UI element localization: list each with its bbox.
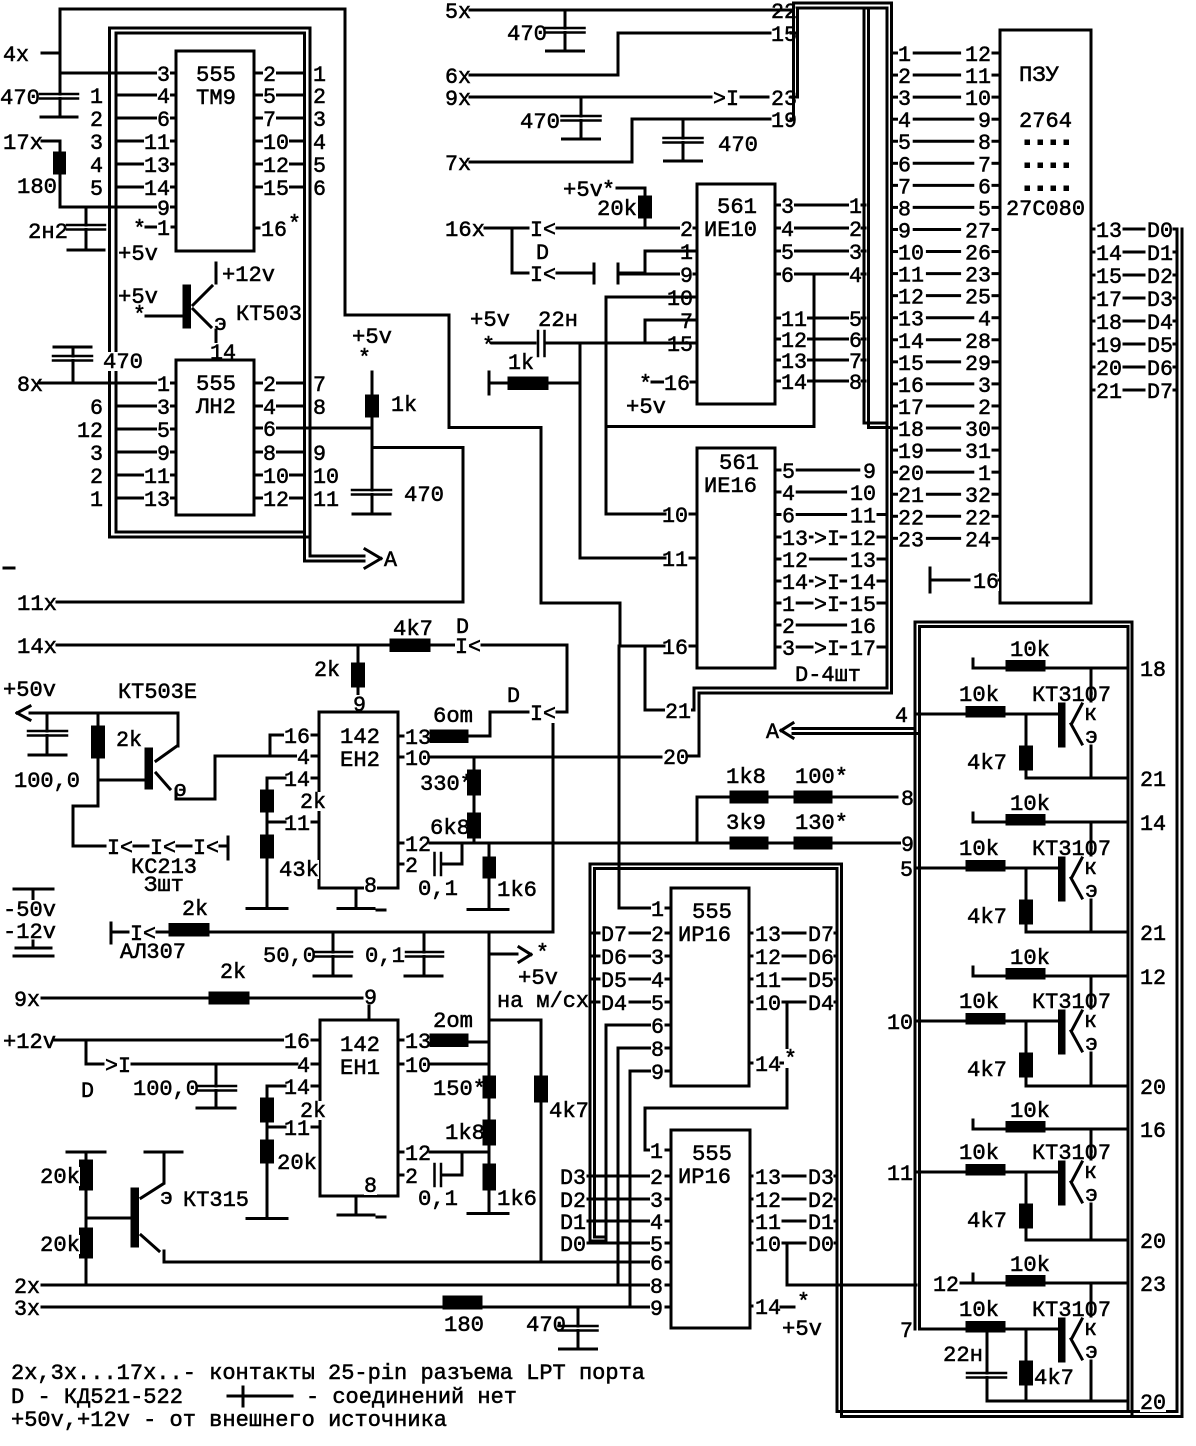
wire D diode row y712: [507, 686, 520, 705]
transistor Q4 КТ3107: [1032, 685, 1111, 704]
svg-text:I<: I<: [455, 634, 481, 660]
svg-text:20: 20: [1140, 1075, 1166, 1101]
net A return arrow double line: [766, 722, 779, 741]
capacitor 50,0: [263, 946, 316, 965]
svg-text:12: 12: [1140, 965, 1166, 991]
node 9x input: [445, 89, 471, 108]
svg-text:I<: I<: [107, 835, 133, 861]
IR16u pin 8: [618, 1047, 651, 1050]
svg-text:+5v: +5v: [782, 1316, 822, 1342]
svg-text:20k: 20k: [40, 1164, 80, 1190]
transistor Q5 КТ3107: [1032, 839, 1111, 858]
svg-text:+50v,+12v - от внешнего источн: +50v,+12v - от внешнего источника: [11, 1407, 447, 1433]
resistor 1k6 EH1: [483, 1164, 496, 1190]
EH1 pin 10 row: [398, 1063, 403, 1066]
EH1 right pin 13 with 2om: [398, 1039, 403, 1042]
svg-text:2k: 2k: [220, 959, 246, 985]
capacitor 470 at LN2 pin6: [352, 489, 391, 492]
IR16l pin 6: [164, 1261, 651, 1264]
svg-text:-12v: -12v: [3, 919, 56, 945]
EH2 left pins: [284, 727, 310, 746]
EH1 pin 9 top: [364, 988, 377, 1007]
svg-text:11: 11: [662, 547, 688, 573]
svg-text:17: 17: [850, 636, 876, 662]
resistor 6k8: [430, 818, 470, 837]
svg-text:3: 3: [782, 636, 795, 662]
EH2 pin 10 row to net 20: [398, 756, 403, 759]
LN2 pin 6 row to 1k junction: [254, 427, 372, 430]
svg-text:*: *: [358, 345, 371, 371]
svg-text:15: 15: [667, 332, 693, 358]
transistor Q4 КТ3107 cell 1 pullup 10k: [972, 659, 975, 668]
svg-text:470: 470: [103, 349, 143, 375]
svg-text:14: 14: [1140, 811, 1166, 837]
svg-text:27C080: 27C080: [1006, 196, 1085, 222]
IE10 pin16 star: [639, 374, 652, 393]
node 11x input: [17, 594, 57, 613]
svg-text:+5v: +5v: [626, 394, 666, 420]
svg-text:16: 16: [664, 371, 690, 397]
svg-text:4x: 4x: [3, 42, 29, 68]
svg-text:ПЗУ: ПЗУ: [1019, 62, 1059, 88]
wire clock right leg: [344, 9, 347, 315]
power +12v label: [215, 263, 218, 283]
no-connection symbol: [228, 1395, 292, 1398]
svg-text:5: 5: [90, 176, 103, 202]
svg-text:10k: 10k: [959, 1140, 999, 1166]
IR16u pin 6: [606, 1024, 651, 1027]
svg-text:1: 1: [90, 487, 103, 513]
resistors 3k9 and 130* row net 9: [726, 813, 766, 832]
svg-text:9: 9: [650, 1296, 663, 1322]
bus pair right main: [886, 8, 889, 688]
IR16l data out rows: [750, 1175, 752, 1178]
resistor 1k6 EH2: [488, 843, 491, 857]
svg-text:D7: D7: [1147, 379, 1173, 405]
resistor 4k7 cell 4: [1025, 1172, 1028, 1204]
svg-text:10k: 10k: [959, 989, 999, 1015]
svg-text:*: *: [133, 216, 146, 242]
transistor Q6 КТ3107: [1032, 992, 1111, 1011]
svg-text:D4: D4: [808, 991, 834, 1017]
resistor 1k8 EH1: [445, 1123, 485, 1142]
svg-text:D4: D4: [601, 991, 627, 1017]
svg-text:10: 10: [405, 746, 431, 772]
svg-text:+5v: +5v: [118, 241, 158, 267]
transistor Q7 base resistor 10k: [959, 1143, 999, 1162]
TM9 right pin rows: [254, 72, 305, 75]
svg-text:180: 180: [444, 1312, 484, 1338]
svg-text:10k: 10k: [1010, 791, 1050, 817]
svg-text:*: *: [784, 1046, 797, 1072]
svg-text:11: 11: [887, 1161, 913, 1187]
svg-text:330*: 330*: [420, 771, 473, 797]
svg-text:>I: >I: [713, 86, 739, 112]
capacitor 22н at cell 5: [943, 1345, 983, 1364]
power +5v label: [118, 244, 158, 263]
svg-text:20k: 20k: [277, 1150, 317, 1176]
IE16 pin 16 row: [662, 638, 688, 657]
wire 4x vertical trunk: [59, 9, 62, 94]
svg-text:10k: 10k: [1010, 1252, 1050, 1278]
EH1 left pins 16/4: [284, 1032, 310, 1051]
svg-text:100*: 100*: [795, 764, 848, 790]
svg-text:9x: 9x: [445, 86, 471, 112]
svg-text:10k: 10k: [1010, 637, 1050, 663]
svg-text:7x: 7x: [445, 151, 471, 177]
svg-text:4k7: 4k7: [967, 904, 1007, 930]
resistor 20k: [597, 199, 637, 218]
stray minus: [4, 567, 14, 570]
wire row 19: [632, 118, 770, 121]
svg-text:13: 13: [405, 1029, 431, 1055]
svg-text:10k: 10k: [959, 836, 999, 862]
IC U5 142 ЕН2 box: [319, 712, 398, 888]
svg-text:2k: 2k: [116, 727, 142, 753]
TM9 left pin rows: [60, 72, 176, 75]
power +5v under IE10: [626, 397, 666, 416]
emitter row cell 3: [1026, 1085, 1128, 1088]
net 21 row: [645, 709, 692, 712]
svg-text:24: 24: [965, 527, 991, 553]
svg-text:14: 14: [781, 370, 807, 396]
EH2 pin 2 with cap 0,1: [398, 863, 403, 866]
svg-text:*: *: [536, 940, 549, 966]
wire clock top run: [60, 8, 345, 11]
resistor 20k lower at KT315: [86, 1217, 131, 1220]
svg-text:12: 12: [933, 1272, 959, 1298]
IR16l pin 10 to D0 and out: [750, 1242, 752, 1245]
svg-text:10: 10: [755, 991, 781, 1017]
PZU pin 16 no-connect: [929, 568, 932, 592]
svg-text:11x: 11x: [17, 591, 57, 617]
svg-text:3x: 3x: [14, 1296, 40, 1322]
svg-text:>I: >I: [814, 592, 840, 618]
svg-text:23: 23: [898, 527, 924, 553]
svg-text:2х,3х...17х..- контакты 25-pin: 2х,3х...17х..- контакты 25-pin разъема L…: [11, 1360, 645, 1386]
resistor 330*: [420, 774, 473, 793]
svg-text:на м/сх: на м/сх: [497, 988, 589, 1014]
IR16l pin 8: [650, 1277, 663, 1296]
svg-text:АЛ307: АЛ307: [120, 939, 186, 965]
svg-text:14: 14: [755, 1052, 781, 1078]
svg-text:2н2: 2н2: [28, 219, 68, 245]
svg-text:0,1: 0,1: [418, 1186, 458, 1212]
svg-text:2764: 2764: [1019, 108, 1072, 134]
power +12v input: [3, 1032, 56, 1051]
svg-text:100,0: 100,0: [14, 768, 80, 794]
svg-text:1k: 1k: [391, 392, 417, 418]
PZU data pin rows D0-D7: [1091, 228, 1094, 231]
svg-text:6: 6: [313, 176, 326, 202]
diode D I< row to IE10 pin2: [530, 220, 556, 239]
svg-text:20: 20: [1140, 1390, 1166, 1416]
PZU address pin rows: [892, 52, 897, 55]
TM9 pin 16 *: [254, 227, 259, 230]
svg-text:10: 10: [887, 1010, 913, 1036]
svg-text:14: 14: [755, 1295, 781, 1321]
svg-text:1k: 1k: [508, 350, 534, 376]
capacitor 470 at 5x: [507, 24, 547, 43]
svg-text:ИР16: ИР16: [678, 922, 731, 948]
IC U2 555 ЛН2 box: [176, 360, 254, 515]
svg-text:4k7: 4k7: [967, 1057, 1007, 1083]
svg-text:4k7: 4k7: [1034, 1365, 1074, 1391]
svg-text:16: 16: [973, 569, 999, 595]
resistor 43k EH2 adj: [266, 812, 269, 835]
label D-4шт: [795, 665, 861, 684]
svg-text:I<: I<: [530, 701, 556, 727]
transistor Q4 base resistor 10k: [959, 685, 999, 704]
diode I< second row with gap bars: [512, 272, 528, 275]
transistor Q3 КТ315: [145, 1151, 182, 1154]
svg-text:1: 1: [651, 897, 664, 923]
svg-text:+12v: +12v: [3, 1029, 56, 1055]
svg-text:16x: 16x: [445, 217, 485, 243]
wire IE10 pin6 branch down: [813, 274, 816, 427]
svg-text:16: 16: [261, 217, 287, 243]
svg-text:150*: 150*: [433, 1076, 486, 1102]
capacitor 470 at 3x: [526, 1315, 566, 1334]
IC U7 561 ИЕ16 box: [697, 448, 775, 668]
wire EH2 pins16/4 tie: [215, 755, 298, 758]
svg-text:I<: I<: [530, 262, 556, 288]
svg-text:23: 23: [1140, 1272, 1166, 1298]
transistor Q6 КТ3107 cell 3 pullup 10k: [972, 967, 975, 976]
svg-text:100,0: 100,0: [133, 1076, 199, 1102]
IE16 right pin rows: [775, 469, 780, 472]
capacitor 100,0 at +50v: [46, 713, 49, 731]
svg-text:6: 6: [781, 263, 794, 289]
svg-text:9: 9: [353, 692, 366, 718]
svg-text:16: 16: [662, 635, 688, 661]
svg-text:КТ3107: КТ3107: [1032, 1140, 1111, 1166]
svg-text:2k: 2k: [300, 789, 326, 815]
node 16x input: [445, 220, 485, 239]
bus pair data right side: [1176, 229, 1179, 1412]
emitter row cell 2: [1026, 931, 1128, 934]
svg-text:4: 4: [849, 263, 862, 289]
resistor 4k7 cell 1: [1025, 714, 1028, 746]
svg-text:1: 1: [157, 216, 170, 242]
svg-text:22н: 22н: [538, 307, 578, 333]
emitter row cell 4: [1026, 1239, 1128, 1242]
IE16 pin 10: [662, 506, 688, 525]
svg-text:8: 8: [364, 1173, 377, 1199]
resistor 4k7 cell 5: [1025, 1329, 1028, 1361]
IR16u pin 9: [630, 1070, 651, 1073]
svg-text:2om: 2om: [433, 1008, 473, 1034]
svg-text:2k: 2k: [314, 657, 340, 683]
svg-text:2: 2: [405, 1164, 418, 1190]
svg-text:21: 21: [665, 699, 691, 725]
capacitor 100,0 at EH1: [133, 1079, 199, 1098]
resistor 2k to EH2 pin9: [314, 660, 340, 679]
svg-text:8: 8: [849, 370, 862, 396]
svg-text:D-4шт: D-4шт: [795, 662, 861, 688]
EH1 left pins 14/11 divider: [284, 1078, 310, 1097]
LN2 right pin rows: [254, 382, 305, 385]
svg-text:2: 2: [405, 853, 418, 879]
svg-text:470: 470: [404, 482, 444, 508]
resistor 4k7 cell 2: [1025, 868, 1028, 900]
svg-text:6om: 6om: [433, 703, 473, 729]
net 4 label: [895, 706, 908, 725]
wire base net down to zener chain: [73, 805, 98, 808]
IR16l pin 9: [650, 1299, 663, 1318]
svg-text:12: 12: [263, 487, 289, 513]
diode D >I to pin 23: [713, 89, 739, 108]
transistor Q1 КТ503: [118, 287, 158, 306]
IC U4 ПЗУ 2764/27C080 box: [1000, 30, 1091, 603]
EH1 pin 12 row: [398, 1151, 403, 1154]
wire clock to IR16 pin1: [618, 646, 621, 908]
transistor Q6 base resistor 10k: [959, 992, 999, 1011]
svg-text:ИЕ16: ИЕ16: [704, 473, 757, 499]
svg-text:5: 5: [900, 857, 913, 883]
resistor 4k7 cell 3: [1025, 1021, 1028, 1053]
svg-text:10: 10: [755, 1232, 781, 1258]
svg-text:16: 16: [284, 1029, 310, 1055]
bus frame around IR16 registers: [590, 863, 842, 866]
svg-text:20k: 20k: [597, 196, 637, 222]
svg-text:8: 8: [901, 786, 914, 812]
svg-text:6k8: 6k8: [430, 815, 470, 841]
resistor 2k EH1: [266, 1086, 269, 1098]
svg-text:D0: D0: [808, 1232, 834, 1258]
svg-text:КТ503: КТ503: [236, 301, 302, 327]
ground for 43k: [247, 907, 287, 910]
resistor 20k upper at KT315: [67, 1151, 105, 1154]
svg-text:11: 11: [313, 487, 339, 513]
IC U1 555 ТМ9 box: [176, 51, 254, 251]
LN2 pin 14 top: [210, 343, 236, 362]
svg-text:4k7: 4k7: [967, 1208, 1007, 1234]
capacitor 470 at 8x: [54, 346, 91, 349]
resistor 4k7 vertical: [540, 1020, 543, 1076]
svg-text:10k: 10k: [959, 1297, 999, 1323]
svg-text:0,1: 0,1: [365, 943, 405, 969]
svg-text:9: 9: [901, 832, 914, 858]
svg-text:4: 4: [895, 703, 908, 729]
power +5v* for 20k: [563, 180, 603, 199]
resistor 180 on 3x: [443, 1296, 482, 1309]
svg-text:ЕН1: ЕН1: [340, 1055, 380, 1081]
svg-text:4k7: 4k7: [967, 750, 1007, 776]
svg-text:>I: >I: [105, 1053, 131, 1079]
IE10 left pins: [680, 220, 693, 239]
svg-text:180: 180: [17, 174, 57, 200]
svg-text:50,0: 50,0: [263, 943, 316, 969]
svg-text:*: *: [288, 211, 301, 237]
svg-text:13: 13: [144, 487, 170, 513]
node 17x input: [3, 133, 43, 152]
LED АЛ307 with 2k: [110, 923, 113, 943]
IE16 pin 11: [662, 550, 688, 569]
svg-text:22н: 22н: [943, 1342, 983, 1368]
svg-text:2k: 2k: [182, 896, 208, 922]
svg-text:>I: >I: [814, 636, 840, 662]
svg-text:А: А: [384, 547, 397, 573]
svg-text:8: 8: [364, 873, 377, 899]
net 20 row: [663, 748, 689, 767]
svg-text:10k: 10k: [1010, 945, 1050, 971]
transistor Q5 base resistor 10k: [959, 839, 999, 858]
resistors 1k8 and 100* row net 8: [726, 767, 766, 786]
IE10 right pins to bus: [775, 204, 849, 207]
svg-text:43k: 43k: [279, 857, 319, 883]
svg-text:20: 20: [663, 745, 689, 771]
svg-text:D: D: [507, 683, 520, 709]
resistor 1k horizontal: [488, 372, 491, 394]
transistor Q8 base resistor 10k: [959, 1300, 999, 1319]
EH1 pin 8 ground: [364, 1176, 377, 1195]
capacitor 470 at 9x: [520, 112, 560, 131]
svg-text:130*: 130*: [795, 810, 848, 836]
resistor 4k7 on 14x: [393, 619, 433, 638]
svg-text:6: 6: [263, 417, 276, 443]
svg-text:1k6: 1k6: [497, 1186, 537, 1212]
resistor 150*: [433, 1079, 486, 1098]
svg-text:ТМ9: ТМ9: [196, 85, 236, 111]
power +50v input: [3, 680, 56, 699]
svg-text:14x: 14x: [17, 634, 57, 660]
svg-text:КТ3107: КТ3107: [1032, 682, 1111, 708]
wire cross-link row y426: [606, 425, 814, 428]
svg-text:ЛН2: ЛН2: [195, 394, 236, 420]
svg-text:21: 21: [1140, 921, 1166, 947]
wire IE10 pin10 to IE16 pin10: [605, 297, 608, 514]
IC U6 142 ЕН1 box: [320, 1020, 398, 1196]
IR16u pin 10 to D4 and lower pin1: [749, 1001, 752, 1004]
diode D >I at +12v: [85, 1040, 88, 1064]
power -50v label: [14, 888, 53, 891]
wire IE10 long vertical x553: [552, 712, 555, 932]
IR16l pin 14*: [750, 1305, 752, 1308]
svg-text:КТ3107: КТ3107: [1032, 1297, 1111, 1323]
TM9 pin 9 row: [60, 206, 176, 209]
wire branch down to IE16 pin11: [579, 343, 582, 558]
node 2x input: [14, 1277, 40, 1296]
svg-text:470: 470: [0, 85, 40, 111]
resistor 2k EH2 adj: [266, 778, 269, 790]
svg-text:*: *: [133, 302, 146, 328]
svg-text:0,1: 0,1: [418, 876, 458, 902]
svg-text:10k: 10k: [1010, 1098, 1050, 1124]
wire to 4k7 riser: [489, 1019, 541, 1022]
bus pair middle: [863, 10, 866, 423]
node A output arrow: [310, 555, 364, 558]
svg-text:20: 20: [1140, 1229, 1166, 1255]
capacitor 470 at 7x/19: [718, 135, 758, 154]
svg-text:10k: 10k: [959, 682, 999, 708]
node 7x input: [445, 154, 471, 173]
IR16u data in rows D7-D4: [590, 932, 599, 935]
diode D I< on 14x: [456, 617, 469, 636]
wire IE10 pin7 join pin15 row: [644, 320, 647, 343]
svg-text:+5v: +5v: [470, 307, 510, 333]
svg-text:КТ315: КТ315: [183, 1187, 249, 1213]
power -12v label: [3, 922, 56, 941]
emitter row cell 1: [1026, 777, 1128, 780]
TM9 pin 1 *-: [133, 219, 146, 238]
resistor 180: [59, 141, 62, 152]
svg-text:14: 14: [210, 340, 236, 366]
LN2 left pin rows: [116, 405, 176, 408]
svg-text:7: 7: [900, 1318, 913, 1344]
svg-text:4k7: 4k7: [393, 616, 433, 642]
node 14x input: [17, 637, 57, 656]
